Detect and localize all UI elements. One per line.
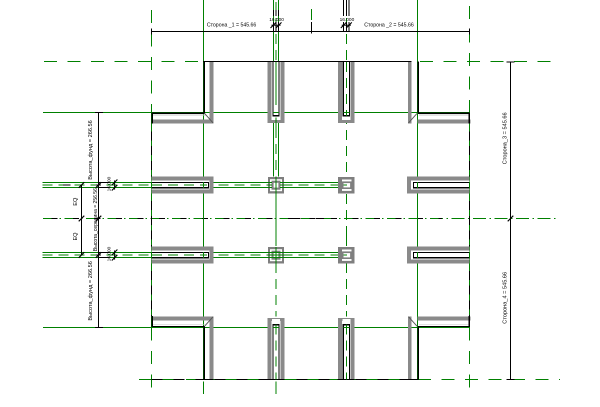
green centre dashes in bottom U slots [275, 325, 277, 380]
top dimension end ticks [151, 28, 153, 34]
svg-text:Высота_середина = 256.56: Высота_середина = 256.56 [93, 188, 99, 251]
svg-text:16.000: 16.000 [107, 176, 113, 191]
grid horizontal H3 (y=327) [43, 327, 470, 329]
wall footing U bottom col1 [268, 318, 285, 380]
left main dimension end ticks [95, 112, 103, 114]
mini dimension 16.000 top col2 [343, 0, 345, 16]
mini dimension 16.000 left row1 [99, 181, 110, 183]
row2 centre dashed [43, 254, 347, 256]
svg-text:Сторона_3 = 545.66: Сторона_3 = 545.66 [503, 112, 509, 164]
hidden dash on row1 centre [63, 184, 71, 186]
EQ dimension ticks [79, 182, 85, 188]
square pier col2 row1 [338, 177, 354, 193]
wall footing channel right row2 [407, 247, 469, 264]
green dash below bottom edge col1 [275, 382, 277, 395]
centreline dash-dot (y=219) [43, 218, 556, 220]
top dimension line [152, 31, 470, 33]
svg-text:Высота_фунд = 266.56: Высота_фунд = 266.56 [88, 120, 94, 179]
wall footing U bottom col2 [338, 318, 355, 380]
square pier col2 row2 [338, 247, 354, 263]
col2 centre line segments (x=346) [345, 2, 347, 236]
grid vertical V5 (x=418) [417, 0, 419, 380]
grid right edge vertical (x=469) [469, 6, 471, 113]
corner wall top-right [408, 62, 412, 124]
grid top edge (dashed green, y=61) [44, 61, 560, 63]
green edge bits crossing channel slots [469, 182, 471, 188]
green centre in top U col2 slot [345, 62, 347, 116]
grid vertical V2 (x=204) [203, 0, 205, 380]
corner wall bottom-left [210, 316, 214, 379]
svg-text:Сторона_4 = 545.66: Сторона_4 = 545.66 [503, 272, 509, 324]
wall footing U top col2 [338, 62, 355, 124]
grid left edge vertical (x=152) [151, 10, 153, 113]
right dimension line [510, 62, 512, 380]
svg-text:Сторона _1 = 545.66: Сторона _1 = 545.66 [207, 23, 257, 29]
EQ dimension line [81, 185, 83, 255]
svg-text:16.000: 16.000 [107, 246, 113, 261]
mini dimension 16.000 left row2 [99, 251, 110, 253]
svg-text:EQ: EQ [73, 197, 79, 206]
corner wall top-left [210, 62, 214, 124]
green centre in top U col1 slot [275, 62, 277, 105]
svg-text:Высота_фунд = 266.56: Высота_фунд = 266.56 [88, 261, 94, 321]
left main dimension witness ticks [96, 182, 102, 188]
wall footing channel right row1 [407, 177, 469, 194]
green grid bits crossing U slots on H2 [273, 112, 279, 114]
green grid bits crossing U slots on H3 [273, 327, 279, 329]
building top edge solid [203, 61, 412, 63]
hidden wall dashes left edge [151, 132, 153, 177]
hidden wall dashes bottom edge [152, 379, 204, 381]
svg-text:EQ: EQ [73, 232, 79, 241]
row1 centre dashed [43, 184, 341, 186]
svg-text:16.000: 16.000 [269, 17, 284, 23]
hidden wall dashes right edge [469, 132, 471, 177]
wall footing U top col1 [268, 62, 285, 124]
green centre dashes in left channel slots [152, 184, 207, 186]
building bottom edge solid segments [203, 379, 214, 381]
green V2 bits crossing left channel slots [203, 182, 205, 188]
green V5 bits crossing right channel slots [417, 182, 419, 188]
row1 twin wall lines (y=182/187) [43, 181, 341, 183]
svg-text:Сторона _2 = 545.66: Сторона _2 = 545.66 [364, 23, 414, 29]
square pier col1 row2 [268, 247, 284, 263]
svg-text:16.000: 16.000 [340, 17, 355, 23]
col1 twin wall lines upper (x=273/278) [272, 0, 274, 62]
row2 twin wall lines (y=252/257) [43, 251, 347, 253]
corner wall bottom-right [408, 316, 412, 379]
right dimension end ticks [507, 61, 515, 63]
grid horizontal H2 (y=112) [43, 112, 470, 114]
wall footing channel left row1 [152, 177, 214, 194]
square pier col1 row1 [268, 177, 284, 193]
col1 centre line segments [275, 2, 277, 62]
wall footing channel left row2 [152, 247, 214, 264]
hidden dashes on centreline [292, 218, 301, 220]
left main dimension line [98, 113, 100, 328]
mini dimension 16.000 top col1 [272, 10, 274, 16]
grid bottom edge (dashed green, y=380) [139, 379, 203, 381]
